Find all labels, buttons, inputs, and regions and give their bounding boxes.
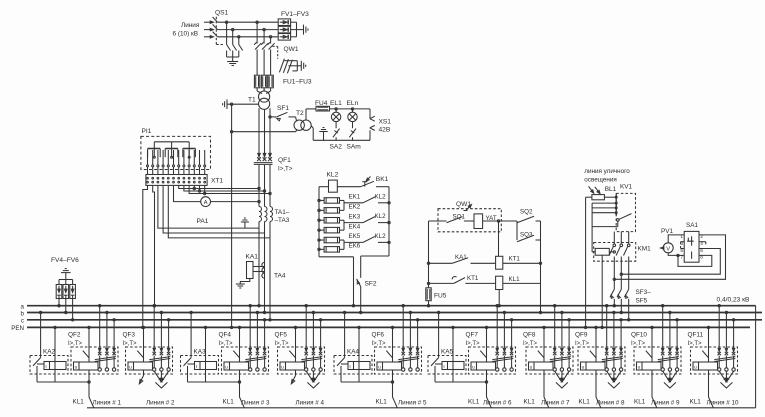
wire control right rail to bus b [540,221,542,313]
svg-text:SQ2: SQ2 [520,209,533,216]
wire KA5 to QF7 output junction [435,381,487,383]
wire heater top rail [319,186,329,188]
svg-text:KA5: KA5 [441,349,454,356]
svg-text:u: u [638,365,641,370]
svg-text:Линия # 7: Линия # 7 [541,399,570,406]
wire heater pair links [340,199,345,201]
svg-text:KA1: KA1 [246,254,259,261]
svg-text:EK4: EK4 [349,223,361,230]
wire QF8 pole feeds from buses [554,305,556,307]
svg-text:QW1: QW1 [284,46,299,53]
svg-text:Линия # 1: Линия # 1 [93,399,122,406]
wire KA3 to QF4 output junction [188,381,240,383]
wire XT1 pin1 to PEN bus [143,185,148,327]
svg-text:u: u [530,365,533,370]
svg-text:KL2: KL2 [375,213,387,220]
wire BL1 left down to PEN [586,196,592,198]
wire T2 bottom tap [232,131,296,133]
wire bus a right end down to outgoing line rail [755,306,757,408]
wire XT1 metering taps to secondary lines [179,185,259,188]
svg-text:KL1: KL1 [634,398,646,405]
wire T2 secondary top rail [305,109,307,120]
svg-text:KA4: KA4 [347,349,360,356]
svg-text:I>,T>: I>,T> [123,341,138,347]
contact KA5 feed from bus b [437,311,439,313]
neutral contact QF9 [595,326,597,328]
ground QW1 earthing (sideways) [300,61,302,71]
earthing switch of QS1 with ground [225,21,227,23]
wire incoming phase C with arrow [204,36,213,38]
contact KA3 feed from bus b [190,311,192,313]
wire T2 secondary bottom rail [311,126,313,128]
svg-text:QF7: QF7 [466,332,479,339]
neutral contact QF8 [543,326,545,328]
svg-text:Линия: Линия [181,22,200,29]
svg-text:QF2: QF2 [68,332,81,339]
svg-text:u: u [225,365,228,370]
svg-text:–TA3: –TA3 [275,217,290,224]
svg-text:SF2: SF2 [365,281,377,288]
release unit QF4 [224,362,249,370]
neutral contact QF11 [707,326,709,328]
wire KV1 coil taps [592,202,616,204]
svg-text:QS1: QS1 [215,10,229,17]
svg-text:KL2: KL2 [375,193,387,200]
release unit QF3 [128,362,153,370]
wire KA2 through-line from PEN [54,326,56,328]
wire outgoing lines bottom rail [87,407,756,409]
svg-text:FU5: FU5 [434,293,447,300]
coil KM1 [595,248,609,255]
release unit QF10 [637,362,662,370]
coil KA2 [44,362,66,370]
load break switch QW1 (3 blades) [255,43,261,49]
svg-text:0,4/0,23 кВ: 0,4/0,23 кВ [717,297,751,304]
cable trident QF8 [555,371,562,381]
release unit QF8 [529,362,554,370]
wire KA3 contact to feeder junction [187,366,189,382]
svg-text:I>,T>: I>,T> [372,341,387,347]
coil KA4 [348,362,370,370]
ground CT secondary [244,222,246,228]
wire PV1 to SA1 pin7 [668,253,684,256]
wire heater block bottom right via SF2 [361,255,389,257]
svg-text:Линия # 2: Линия # 2 [146,399,175,406]
svg-text:1: 1 [680,234,683,240]
wire CT secondary return 1 [158,185,259,228]
wire BL1 to KV1 [604,196,616,198]
svg-text:PI1: PI1 [142,128,152,135]
wire SA1 pin6 to KM1 line2 [621,249,720,275]
heater EK6 [324,247,339,253]
wire QF3 pole feeds from buses [153,305,155,307]
svg-text:KM1: KM1 [638,246,652,253]
svg-text:EK3: EK3 [349,213,361,220]
breaker poles QF2 [98,352,101,355]
svg-text:Линия # 10: Линия # 10 [707,399,740,406]
svg-text:7: 7 [680,255,683,261]
svg-text:u: u [582,365,585,370]
wire QF10 pole feeds from buses [662,305,664,307]
svg-text:SF1: SF1 [277,105,289,112]
svg-text:V: V [666,246,670,252]
wire KA2 contact to feeder junction [36,366,38,382]
breaker poles QF10 [661,352,664,355]
svg-text:TA1–: TA1– [275,209,290,216]
svg-text:KL1: KL1 [524,398,536,405]
svg-text:6 (10) кВ: 6 (10) кВ [173,31,199,38]
neutral contact QF4 [238,326,240,328]
svg-text:BL1: BL1 [605,186,617,193]
wire heater block bottom left to bus a [319,256,354,258]
svg-text:SF5: SF5 [636,297,648,304]
svg-text:KL2: KL2 [375,233,387,240]
wire YAT to KT1 coil [498,221,500,256]
wire control top rail [429,220,447,222]
svg-text:KL1: KL1 [376,398,388,405]
wire FV5 to bus b [65,299,67,313]
svg-text:KL1: KL1 [690,398,702,405]
wire KA5 through-line from PEN [452,326,454,328]
cable trident QF9 [607,371,614,381]
cable trident QF10 [663,371,670,381]
svg-text:QF9: QF9 [575,332,588,339]
release unit QF7 [471,362,496,370]
breaker poles QF9 [605,352,608,355]
wire PV1 to SA1 pin1 [668,235,684,243]
svg-text:освещения: освещения [584,176,616,183]
svg-text:EK6: EK6 [349,243,361,250]
neutral contact QF2 [88,326,90,328]
svg-text:KL1: KL1 [223,398,235,405]
svg-text:QF8: QF8 [523,332,536,339]
svg-text:KL1: KL1 [73,398,85,405]
wire secondary phase b down [264,109,266,156]
svg-text:FV1–FV3: FV1–FV3 [281,11,309,18]
svg-text:I>,T>: I>,T> [68,341,83,347]
svg-text:u: u [75,365,78,370]
svg-text:I>,T>: I>,T> [575,341,590,347]
svg-text:u: u [472,365,475,370]
svg-text:QF5: QF5 [275,332,288,339]
wire drop C to QW1 [269,36,271,38]
svg-text:FV4–FV6: FV4–FV6 [51,257,79,264]
svg-text:T2: T2 [296,110,304,117]
wire FV6 to bus c [72,299,74,320]
svg-text:KT1: KT1 [467,275,479,282]
linkage dashes QW1 [273,45,278,47]
svg-text:u: u [281,365,284,370]
svg-text:линия уличного: линия уличного [584,168,630,175]
wire CT secondary return 2 [163,185,264,233]
svg-text:T1: T1 [248,97,256,104]
svg-text:A: A [204,200,208,206]
wire secondary phase a down [258,108,260,156]
wire QF6 pole feeds from buses [402,305,404,307]
breaker poles QF6 [402,352,405,355]
ground FV4-FV6 [65,273,67,280]
svg-text:I: I [45,364,46,369]
svg-text:EL1: EL1 [330,100,342,107]
wire KA4 to QF6 output junction [341,381,393,383]
svg-text:KL1: KL1 [579,398,591,405]
wire QF2 pole feeds from buses [99,305,101,307]
svg-text:SA1: SA1 [686,222,699,229]
wire T1 neutral down to PEN [231,104,233,327]
breaker poles QF8 [553,352,556,355]
svg-text:KL2: KL2 [327,172,339,179]
cable trident QF11 [719,371,726,381]
wire KA4 contact to feeder junction [340,366,342,382]
breaker poles QF7 [496,352,499,355]
ground QS1 earthing [227,61,238,63]
coil KA3 [195,362,217,370]
wire QF5 pole feeds from buses [305,305,307,307]
wire secondary phase c down [269,108,271,156]
ground T2 secondary (bars up) [323,132,325,141]
svg-text:KL1: KL1 [468,398,480,405]
cable arrow QF3 output [143,370,145,376]
wire phase A bus (HV) [218,21,279,23]
wire secondary lines TA to buses [258,222,260,306]
ground KA1 [240,279,250,285]
wire heater left rail [318,187,320,257]
contact KA2 feed from bus b [39,311,41,313]
svg-text:42В: 42В [379,127,391,134]
svg-text:Линия # 6: Линия # 6 [483,399,512,406]
wire FV4 to bus a [58,299,60,306]
cable trident QF5 [306,371,313,381]
meter terminals [147,165,149,167]
svg-text:SF3–: SF3– [636,289,652,296]
heater EK4 [324,227,339,233]
wire KA2 to QF2 output junction [37,381,89,383]
wire SA1 pin4 stub [699,241,706,243]
svg-text:ELn: ELn [347,100,359,107]
svg-text:I>,T>: I>,T> [688,341,703,347]
svg-text:c: c [21,318,24,325]
wire QF9 pole feeds from buses [606,305,608,307]
wire SA1 pin8 loop to pin7 wire [678,255,712,266]
ground T1 neutral (sideways left) [226,99,228,109]
breaker poles QF11 [718,352,721,355]
svg-text:KV1: KV1 [620,184,633,191]
wire CT secondary return 3 [168,185,270,238]
wire QF7 pole feeds from buses [496,305,498,307]
svg-text:XS1: XS1 [379,119,392,126]
svg-text:I: I [443,364,444,369]
wire KA3 through-line from PEN [204,326,206,328]
wire SA1 pin3 pin5 stubs [681,241,685,243]
heater EK2 [324,208,339,214]
svg-text:XT1: XT1 [211,178,223,185]
wire phase B bus (HV) [218,29,279,31]
cable trident QF3 [154,371,161,381]
svg-text:u: u [129,365,132,370]
svg-text:PEN: PEN [11,325,24,332]
svg-text:EK2: EK2 [349,204,361,211]
svg-text:I>,T>: I>,T> [631,341,646,347]
svg-text:KA2: KA2 [43,349,56,356]
svg-text:PV1: PV1 [661,228,674,235]
contact KA4 feed from bus b [343,311,345,313]
wire FV arrester common to ground [296,22,298,37]
wire QF4 pole feeds from buses [249,305,251,307]
wire incoming phase A with arrow [204,21,213,23]
svg-text:KA3: KA3 [194,349,207,356]
wire KA4 through-line from PEN [358,326,360,328]
neutral contact QF6 [391,326,393,328]
svg-text:QF1: QF1 [278,157,291,164]
breaker poles QF3 [153,352,156,355]
svg-text:Линия # 8: Линия # 8 [596,399,625,406]
wire incoming phase B with arrow [204,29,213,31]
breaker poles QF4 [249,352,252,355]
wire drop B to QW1 [263,28,265,30]
svg-text:u: u [694,365,697,370]
svg-text:KT1: KT1 [509,256,521,263]
svg-text:QF3: QF3 [123,332,136,339]
svg-text:Линия # 4: Линия # 4 [296,399,325,406]
release unit QF11 [693,362,718,370]
earthing blades of QW1 with ground [279,59,284,73]
svg-text:PA1: PA1 [197,218,209,225]
neutral contact QF3 [142,326,144,328]
svg-text:SAm: SAm [347,144,362,151]
heater EK5 [324,237,339,243]
svg-text:I>,T>: I>,T> [219,341,234,347]
svg-text:QF4: QF4 [219,332,232,339]
svg-text:EK5: EK5 [349,233,361,240]
wire secondary lines QF1 to TA [258,165,260,207]
wire control left rail [428,221,430,288]
svg-text:SA2: SA2 [330,144,343,151]
neutral contact QF10 [651,326,653,328]
wire phase C bus (HV) [218,36,279,38]
contact KV1 [617,219,620,222]
cable arrow QF5 output [295,370,297,376]
coil KA5 [442,362,464,370]
svg-text:I: I [196,364,197,369]
svg-text:I>,T>: I>,T> [275,341,290,347]
svg-text:KL1: KL1 [509,276,521,283]
release unit QF9 [581,362,606,370]
svg-text:Линия # 5: Линия # 5 [398,399,427,406]
svg-text:QF11: QF11 [688,332,704,339]
svg-text:I>,T>: I>,T> [278,166,293,173]
heater EK1 [324,198,339,204]
svg-text:I>,T>: I>,T> [523,341,538,347]
svg-text:Линия # 9: Линия # 9 [651,399,680,406]
wire KA5 contact to feeder junction [434,366,436,382]
wire KM1 coil to PEN [601,255,603,327]
wire SA1 pin2 to KM1 line1 [614,235,725,279]
wire XT1 pin2 to bus a [153,185,155,305]
heater EK3 [324,218,339,224]
svg-text:TA4: TA4 [274,273,286,280]
release unit QF2 [74,362,99,370]
svg-text:I>,T>: I>,T> [466,341,481,347]
svg-text:BK1: BK1 [376,176,389,183]
svg-text:u: u [378,365,381,370]
svg-text:Линия # 3: Линия # 3 [241,399,270,406]
svg-text:SQ3: SQ3 [520,231,533,238]
wire QF11 pole feeds from buses [718,305,720,307]
svg-text:QF10: QF10 [631,332,647,339]
ground FV1-FV3 (sideways) [303,25,305,35]
release unit QF6 [377,362,402,370]
svg-text:b: b [21,310,25,317]
meter winding symbol [154,141,189,143]
release unit QF5 [280,362,305,370]
breaker poles QF5 [305,352,308,355]
svg-text:FU1–FU3: FU1–FU3 [283,79,312,86]
svg-text:I: I [349,364,350,369]
wire heater right rail [388,187,390,256]
svg-text:QF6: QF6 [372,332,385,339]
wire drop A to QW1 [256,21,258,23]
contacts KM1 (3 poles) [613,232,615,244]
svg-text:EK1: EK1 [349,194,361,201]
neutral contact QF7 [485,326,487,328]
neutral contact QF5 [294,326,296,328]
